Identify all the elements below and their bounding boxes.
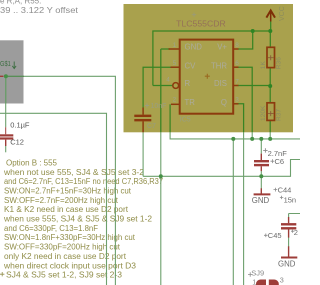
- svg-text:0.1µF: 0.1µF: [10, 121, 30, 130]
- capacitor C6: [254, 154, 269, 172]
- svg-text:C6: C6: [275, 157, 285, 166]
- wire TR down and bottom rail y139: [170, 132, 300, 139]
- origin cross before SJ4 line: [0, 272, 4, 276]
- svg-text:TR: TR: [185, 98, 196, 107]
- svg-text:CV: CV: [185, 61, 197, 70]
- svg-text:SW:OFF=2.7nF=200Hz high cut: SW:OFF=2.7nF=200Hz high cut: [4, 196, 119, 205]
- svg-text:only K2 need in case use D2 po: only K2 need in case use D2 port: [4, 252, 127, 261]
- svg-text:39 .. 3.122 Y offset: 39 .. 3.122 Y offset: [0, 6, 79, 15]
- capacitor C12: [0, 127, 13, 146]
- VCC supply symbol: [266, 10, 275, 21]
- resistor R37: [267, 103, 275, 121]
- pin stubs left: [169, 49, 180, 104]
- wire Q down: [238, 104, 244, 133]
- wire rail to C6 top: [260, 139, 262, 154]
- highlight region (khaki): [124, 4, 294, 132]
- svg-text:when direct clock input use po: when direct clock input use port D3: [3, 261, 137, 270]
- wire below C12: [5, 146, 7, 152]
- wire net lower horizontal from left edge: [0, 113, 107, 285]
- svg-text:Q: Q: [221, 98, 227, 107]
- svg-text:SW:OFF=330pF=200Hz high cut: SW:OFF=330pF=200Hz high cut: [4, 243, 121, 252]
- junction rail 270: [268, 137, 272, 141]
- wire R36 top: [269, 31, 271, 47]
- svg-text:3: 3: [235, 97, 239, 104]
- wire C45 bottom to GND: [288, 237, 290, 246]
- svg-text:10nF: 10nF: [151, 103, 167, 110]
- wire G$1 down to C12: [5, 76, 7, 127]
- svg-text:Option B : 555: Option B : 555: [6, 158, 58, 167]
- svg-text:e R,A, R55.: e R,A, R55.: [0, 0, 41, 5]
- svg-text:C7: C7: [147, 123, 156, 130]
- svg-text:2: 2: [294, 228, 298, 237]
- op IC5 TLC555 box: [180, 40, 234, 114]
- IC pin numbers: [166, 42, 239, 104]
- junction VCC 252: [251, 29, 255, 33]
- wire R37 to rail: [269, 132, 271, 139]
- svg-text:VCC: VCC: [279, 6, 286, 21]
- svg-text:DIS: DIS: [214, 79, 227, 88]
- wire C6 bottom to GND rail and GND symbol: [260, 171, 262, 189]
- junction G$1 pin: [4, 74, 8, 78]
- wire C7 line below khaki: [142, 132, 144, 176]
- junction DIS/R36/R37: [268, 84, 272, 88]
- junction gnd rail 161: [159, 174, 163, 178]
- svg-text:6: 6: [235, 60, 239, 67]
- wire VCC rail y31: [153, 31, 270, 86]
- wire pin2 TR: [169, 104, 171, 132]
- svg-text:SJ4 & SJ5 set 1-2, SJ9 set 2-3: SJ4 & SJ5 set 1-2, SJ9 set 2-3: [6, 271, 123, 280]
- gnd symbol under C6: [260, 188, 262, 194]
- svg-text:V+: V+: [217, 42, 227, 51]
- pin stubs right: [233, 49, 238, 104]
- svg-text:4: 4: [166, 76, 170, 83]
- svg-text:C44: C44: [278, 185, 292, 194]
- svg-text:15n: 15n: [284, 195, 297, 204]
- wire Q vertical to bottom: [243, 132, 245, 285]
- gnd symbol under C45: [288, 246, 290, 257]
- capacitor C7: [134, 108, 151, 133]
- wire R37 bottom: [269, 120, 271, 132]
- svg-text:when use 555, SJ4 & SJ5 & SJ9: when use 555, SJ4 & SJ5 & SJ9 set 1-2: [3, 215, 153, 224]
- svg-text:C45: C45: [268, 231, 282, 240]
- junction rail 233: [231, 137, 235, 141]
- svg-text:when not use 555, SJ4 & SJ5 se: when not use 555, SJ4 & SJ5 set 3-2: [3, 168, 145, 177]
- wire R37 top: [269, 86, 271, 103]
- svg-text:120K: 120K: [260, 105, 267, 121]
- svg-text:R37: R37: [276, 109, 283, 121]
- wire C45 top to right edge: [289, 214, 300, 218]
- part G$1 body (gray rectangle): [0, 40, 24, 103]
- wire net from G$1 pin to upper-right corner: [6, 76, 116, 285]
- svg-text:K1 & K2 need in case use D2 po: K1 & K2 need in case use D2 port: [4, 205, 129, 214]
- junction dots khaki: [251, 29, 273, 88]
- G$1 red pin stub: [0, 75, 4, 77]
- svg-text:and C6=2.7nF, C13=15nF no need: and C6=2.7nF, C13=15nF no need C7,R36,R3…: [4, 177, 164, 186]
- svg-text:2: 2: [173, 97, 177, 104]
- wire to R pin bubble: [153, 85, 173, 87]
- svg-text:5: 5: [173, 60, 177, 67]
- svg-text:7: 7: [235, 78, 239, 85]
- IC pin names: [185, 42, 228, 107]
- wire GND vertical from khaki to bottom: [160, 132, 162, 285]
- wire pin5 CV: [143, 67, 171, 108]
- svg-text:SJ9: SJ9: [251, 269, 264, 278]
- svg-text:GND: GND: [252, 196, 270, 205]
- svg-text:GND: GND: [185, 42, 203, 51]
- inverted pin bubble (R): [173, 83, 179, 89]
- wire THR down: [238, 67, 252, 132]
- junction gnd rail 261: [259, 174, 263, 178]
- junction rail 261: [259, 137, 263, 141]
- svg-text:3: 3: [280, 275, 284, 284]
- svg-text:TLC555CDR: TLC555CDR: [176, 19, 226, 28]
- wire GND rail y176: [143, 160, 300, 177]
- svg-text:IC5: IC5: [180, 117, 191, 124]
- wire V+ jog: [238, 31, 253, 49]
- wire VCC stem: [270, 22, 272, 32]
- wire R36 bottom to dot: [269, 68, 271, 86]
- svg-text:R36: R36: [276, 57, 283, 69]
- junction rail 252: [250, 137, 254, 141]
- svg-text:SW:ON=2.7nF+15nF=30Hz high cut: SW:ON=2.7nF+15nF=30Hz high cut: [4, 187, 132, 196]
- junction VCC 270: [268, 29, 272, 33]
- IC value origin cross: [192, 13, 196, 17]
- svg-text:G$1: G$1: [0, 59, 11, 68]
- IC origin cross: [205, 74, 210, 79]
- SJ9 pads: [256, 280, 279, 285]
- svg-text:8: 8: [235, 42, 239, 49]
- svg-text:SW:ON=1.8nF+330pF=30Hz high cu: SW:ON=1.8nF+330pF=30Hz high cut: [4, 233, 136, 242]
- svg-text:and C6=330pF, C13=1.8nF: and C6=330pF, C13=1.8nF: [4, 224, 98, 233]
- resistor R36: [267, 47, 275, 67]
- wire pin1 GND: [161, 49, 170, 132]
- svg-text:1K: 1K: [260, 61, 267, 70]
- svg-text:R: R: [185, 79, 191, 88]
- svg-text:C12: C12: [10, 137, 24, 146]
- svg-text:THR: THR: [211, 61, 227, 70]
- Option B note text block: [3, 158, 164, 279]
- svg-text:1: 1: [252, 277, 256, 285]
- svg-text:1: 1: [173, 42, 177, 49]
- capacitor C45: [281, 217, 296, 238]
- wire THR vertical to rail: [251, 132, 253, 139]
- wire DIS to resistors: [238, 85, 270, 87]
- svg-text:GND: GND: [278, 259, 296, 268]
- wire down from rail to bottom at 233.3: [232, 139, 234, 285]
